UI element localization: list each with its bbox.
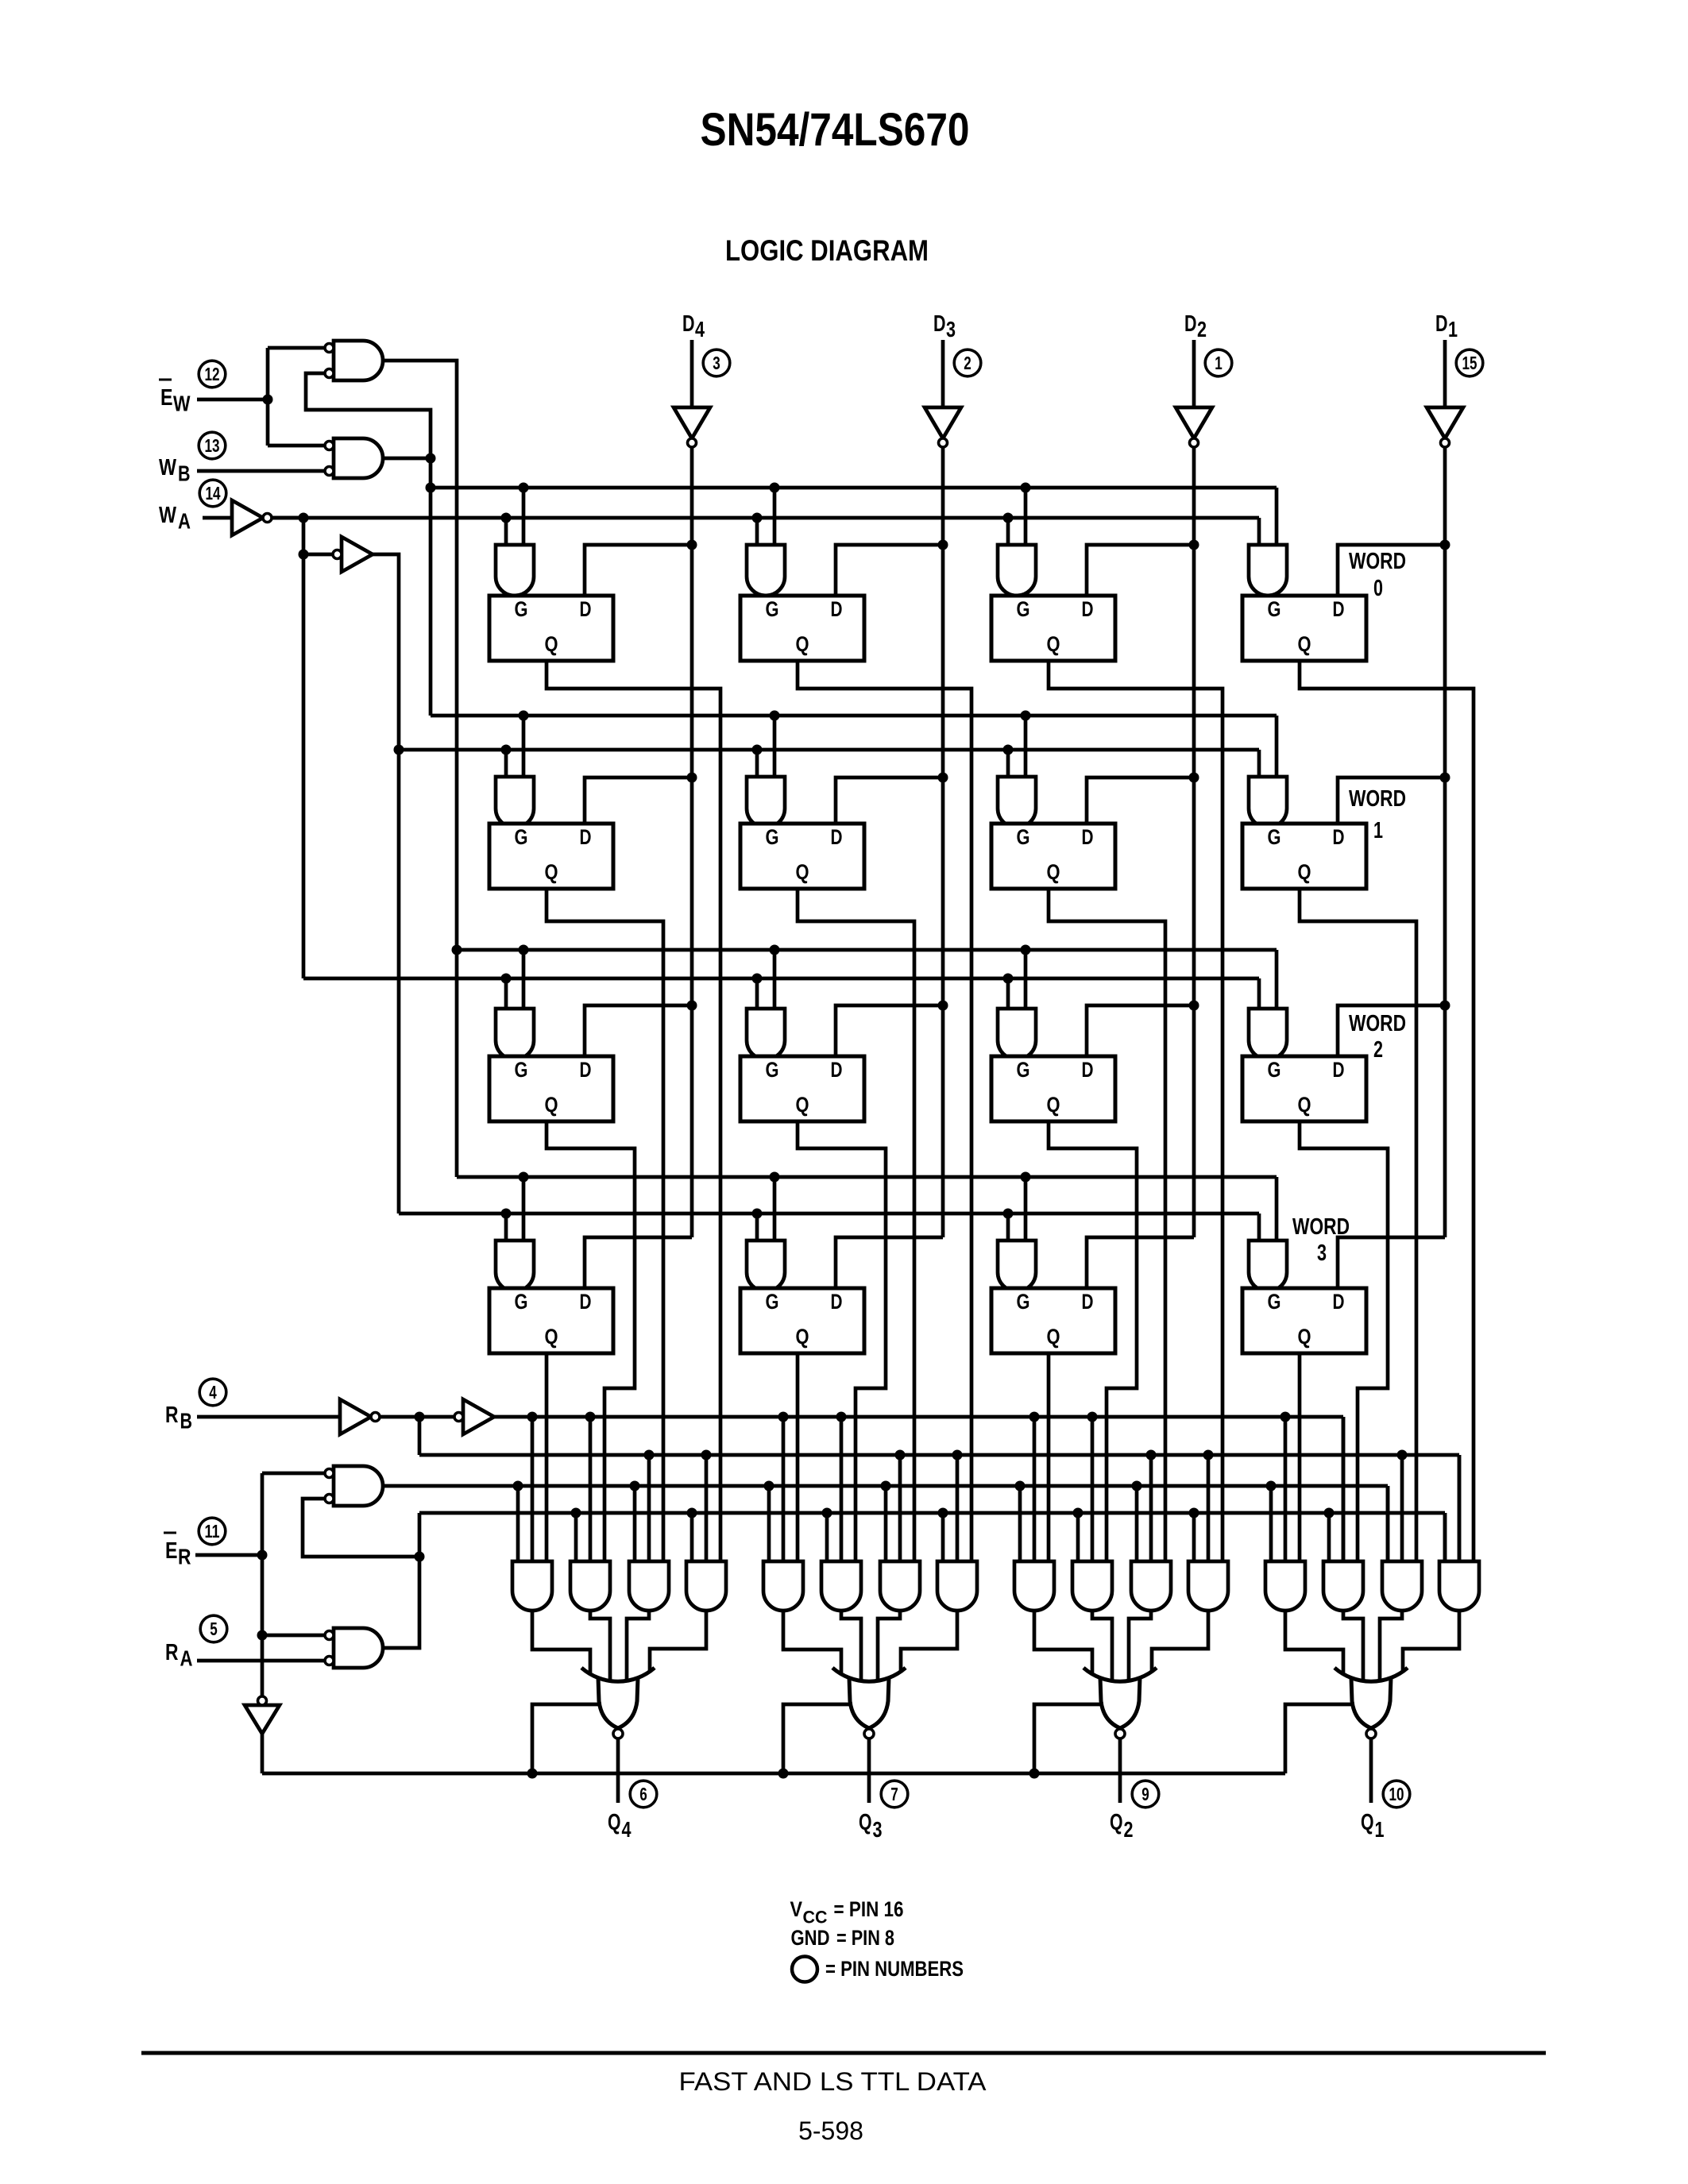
svg-text:Q: Q	[545, 632, 558, 656]
svg-text:G: G	[766, 1058, 779, 1082]
wire read gate input stub D1	[1327, 1513, 1331, 1561]
junction D1 tap word 2	[1440, 1001, 1450, 1011]
wire U4 output vertical (WA true) to word1/word3 A buses	[373, 554, 399, 1214]
AND gate read word2 -- read AND 2 bit D3	[821, 1561, 861, 1611]
wire Q2 output to pin	[1118, 1738, 1122, 1803]
junction bus tap	[519, 945, 529, 955]
wire selA=1 stub last	[1386, 1486, 1390, 1561]
junction D3 tap word 0	[938, 540, 948, 550]
wire read gate input stub D2	[1207, 1455, 1211, 1561]
junction bus tap	[836, 1412, 847, 1422]
AND gate read word2 -- read AND 2 bit D2	[1072, 1561, 1112, 1611]
wire U2 output feedback to U1 input 2	[306, 373, 431, 453]
junction bus tap	[527, 1769, 538, 1779]
AND gate word1 write gate bit D4	[496, 777, 534, 828]
svg-text:15: 15	[1462, 353, 1477, 373]
svg-text:B: B	[178, 461, 191, 486]
inverter U3 (WA invert)	[232, 500, 263, 535]
wire D2 tap to word2 latch D input	[1087, 1005, 1194, 1056]
wire U2 output vertical (selects words 0,1)	[383, 458, 431, 716]
wire D3 tap to word3 latch D input	[836, 1237, 943, 1288]
junction EW split	[263, 395, 273, 405]
wire WA-bar vertical to word2 A bus	[302, 518, 306, 978]
svg-text:Q: Q	[1047, 632, 1060, 656]
wire read gate input stub D2	[1192, 1513, 1196, 1561]
pin 9 circle (Q2)	[1132, 1781, 1159, 1808]
wire read AND4 D1 to NOR	[1403, 1611, 1459, 1673]
wire D3 data line vertical	[941, 447, 945, 1237]
svg-text:Q: Q	[608, 1810, 621, 1835]
wire D4 tap to word2 latch D input	[585, 1005, 692, 1056]
junction bus tap	[770, 1172, 780, 1183]
wire D4 tap to word0 latch D input	[585, 545, 692, 596]
svg-text:12: 12	[205, 364, 220, 384]
wire U1 output vertical (selects words 2,3)	[383, 361, 457, 1177]
junction bus tap	[1003, 513, 1014, 523]
latch word 2 bit D2 (G/D/Q)	[991, 1056, 1115, 1121]
wire WB input to gate U2 input 2	[197, 469, 325, 473]
wire read gate input stub D4	[589, 1417, 593, 1561]
wire ER to gate U7 input 1	[262, 1472, 325, 1476]
svg-text:SN54/74LS670: SN54/74LS670	[701, 104, 970, 156]
svg-text:2: 2	[1197, 317, 1207, 341]
AND gate word0 write gate bit D4	[496, 545, 534, 596]
svg-text:Q: Q	[1298, 1325, 1311, 1349]
svg-text:G: G	[515, 1290, 528, 1314]
gate U7 (AND with inverted inputs, read decode A=1)	[334, 1466, 383, 1506]
inverter U5 (RB invert)	[340, 1399, 371, 1434]
AND gate read word1 -- read AND 3 bit D3	[880, 1561, 920, 1611]
wire word1 D3 gate B input stub	[773, 716, 777, 777]
wire word2 D2 gate A input stub	[1006, 978, 1010, 1009]
wire read gate input stub D4	[705, 1455, 709, 1561]
junction bus tap	[1132, 1481, 1142, 1491]
wire D4 data line vertical	[690, 447, 694, 1237]
svg-text:D: D	[580, 1058, 592, 1082]
svg-text:Q: Q	[796, 1093, 809, 1117]
wire word3 D3 latch Q to read gate	[796, 1353, 800, 1561]
junction bus tap	[1029, 1769, 1040, 1779]
wire word1 D2 gate A input stub	[1006, 750, 1010, 777]
svg-text:Q: Q	[545, 1325, 558, 1349]
svg-text:1: 1	[1448, 317, 1458, 341]
junction bus tap	[519, 711, 529, 721]
junction bus tap	[1021, 945, 1031, 955]
wire D2 tap to word0 latch D input	[1087, 545, 1194, 596]
svg-text:D: D	[1082, 1290, 1094, 1314]
svg-text:R: R	[165, 1640, 179, 1665]
wire EW to gate U1 input 1	[268, 346, 325, 350]
junction D1 tap word 0	[1440, 540, 1450, 550]
wire word0 D3 gate B input stub	[773, 488, 777, 545]
wire D3 tap to word2 latch D input	[836, 1005, 943, 1056]
wire D1 data line vertical	[1443, 447, 1447, 1237]
wire word3 B stub col D1	[1275, 1177, 1279, 1241]
wire D1 to inverter	[1443, 340, 1447, 407]
wire word0 D4 gate A input stub	[504, 518, 508, 545]
wire enable riser into NOR D2	[1034, 1704, 1103, 1773]
wire word0 D2 gate A input stub	[1006, 518, 1010, 545]
svg-text:Q: Q	[1298, 1093, 1311, 1117]
svg-text:E: E	[160, 385, 173, 411]
buffer U4 (WA re-invert, bubble on input)	[342, 537, 373, 572]
svg-text:11: 11	[205, 1521, 220, 1542]
wire D2 data line vertical	[1192, 447, 1196, 1237]
wire read AND1 D3 to NOR	[783, 1611, 841, 1673]
latch word 3 bit D2 (G/D/Q)	[991, 1288, 1115, 1353]
svg-text:Q: Q	[1047, 1093, 1060, 1117]
wire word1 D4 latch Q route to read gate	[547, 889, 663, 1561]
svg-text:D: D	[1435, 311, 1448, 337]
wire word2 D4 latch Q route to read gate	[547, 1121, 635, 1561]
svg-text:A: A	[178, 509, 191, 534]
wire read AND1 D1 to NOR	[1285, 1611, 1343, 1673]
svg-text:GND: GND	[791, 1926, 830, 1950]
junction D2 tap word 2	[1189, 1001, 1199, 1011]
junction bus tap	[1003, 1209, 1014, 1219]
bus read A-select bar (ER*RA-bar)	[419, 1511, 1445, 1515]
svg-text:A: A	[180, 1646, 193, 1671]
svg-text:D: D	[831, 1058, 843, 1082]
wire RB-bar stub last	[1458, 1455, 1462, 1561]
latch word 1 bit D2 (G/D/Q)	[991, 824, 1115, 889]
svg-text:D: D	[1333, 825, 1345, 849]
svg-text:Q: Q	[1047, 1325, 1060, 1349]
bus word1 write A-select (WA)	[399, 748, 1259, 752]
wire D1 tap to word0 latch D input	[1338, 545, 1445, 596]
latch word 3 bit D3 (G/D/Q)	[740, 1288, 864, 1353]
wire word1 D2 gate B input stub	[1024, 716, 1028, 777]
wire read AND2 D2 to NOR	[1092, 1611, 1112, 1682]
wire read AND3 D1 to NOR	[1380, 1611, 1402, 1681]
NOR gate output Q2 (5-input OR with inverting output)	[1100, 1677, 1140, 1728]
wire read gate input stub D2	[1135, 1486, 1139, 1561]
wire read gate input stub D2	[1149, 1455, 1153, 1561]
wire D4 to inverter	[690, 340, 694, 407]
AND gate read word2 -- read AND 2 bit D1	[1323, 1561, 1363, 1611]
svg-text:WORD: WORD	[1292, 1214, 1350, 1240]
wire read gate input stub D1	[1284, 1417, 1288, 1561]
wire word3 D3 gate A input stub	[755, 1214, 759, 1241]
wire read gate input stub D3	[825, 1513, 829, 1561]
wire EW input	[197, 398, 268, 402]
svg-text:1: 1	[1215, 353, 1223, 373]
wire word1 B stub col D1	[1275, 716, 1279, 777]
svg-text:Q: Q	[545, 860, 558, 884]
pin 4 circle (RB)	[199, 1379, 226, 1406]
svg-text:G: G	[1268, 1058, 1281, 1082]
junction ER to U8 tap	[257, 1630, 268, 1641]
inverter on D4 input	[674, 407, 710, 438]
AND gate read word0 -- read AND 4 bit D4	[686, 1561, 726, 1611]
wire word0 D3 latch Q route to read gate	[798, 661, 971, 1561]
svg-text:CC: CC	[803, 1908, 828, 1927]
wire selA=0 stub last	[1443, 1513, 1447, 1561]
wire word3 D4 latch Q to read gate	[545, 1353, 549, 1561]
wire RB-bar down to bus	[418, 1417, 422, 1455]
wire read gate input stub D3	[898, 1455, 902, 1561]
svg-text:1: 1	[1373, 818, 1383, 843]
pin 3 circle (D4)	[703, 349, 730, 376]
buffer U6 (RB re-invert, bubble on input)	[463, 1399, 494, 1434]
junction bus tap	[1003, 974, 1014, 984]
pin 12 circle (EW)	[199, 361, 226, 388]
svg-text:= PIN NUMBERS: = PIN NUMBERS	[825, 1957, 964, 1981]
junction bus tap	[770, 711, 780, 721]
wire word2 B stub col D1	[1275, 950, 1279, 1009]
svg-text:Q: Q	[1298, 632, 1311, 656]
junction bus tap	[585, 1412, 596, 1422]
svg-text:Q: Q	[1361, 1810, 1374, 1835]
NOR gate output Q4 (5-input OR with inverting output)	[598, 1677, 638, 1728]
junction bus tap	[519, 483, 529, 493]
wire word0 A stub col D1	[1257, 518, 1261, 545]
bus word3 write A-select (WA)	[399, 1212, 1259, 1216]
wire D4 tap to word3 latch D input	[585, 1237, 692, 1288]
bus word2 write A-select (WA-bar)	[303, 977, 1259, 981]
junction D4 tap word 0	[687, 540, 697, 550]
latch word 2 bit D3 (G/D/Q)	[740, 1056, 864, 1121]
wire word3 D2 gate A input stub	[1006, 1214, 1010, 1241]
latch word 1 bit D4 (G/D/Q)	[489, 824, 613, 889]
svg-text:G: G	[1268, 825, 1281, 849]
NOR gate output Q1 (5-input OR with inverting output)	[1351, 1677, 1391, 1728]
junction word0 B bus tee	[426, 483, 436, 493]
wire word1 D4 gate B input stub	[522, 716, 526, 777]
wire read gate input stub D3	[767, 1486, 771, 1561]
svg-text:D: D	[1184, 311, 1197, 337]
junction D2 tap word 0	[1189, 540, 1199, 550]
wire word3 D3 gate B input stub	[773, 1177, 777, 1241]
wire enable riser col D1	[1285, 1704, 1354, 1773]
wire read gate input stub D1	[1400, 1455, 1404, 1561]
wire ER to gate U8 input 1	[262, 1634, 325, 1638]
bus word3 write B-select	[457, 1175, 1277, 1179]
AND gate word3 write gate bit D3	[747, 1241, 785, 1291]
wire word2 D4 gate B input stub	[522, 950, 526, 1009]
AND gate read word1 -- read AND 3 bit D2	[1131, 1561, 1171, 1611]
junction D1 tap word 1	[1440, 773, 1450, 783]
wire read gate input stub D1	[1458, 1455, 1462, 1561]
svg-text:W: W	[173, 392, 191, 416]
wire read gate input stub D4	[516, 1486, 520, 1561]
wire Q3 output to pin	[867, 1738, 871, 1803]
junction bus tap	[778, 1412, 789, 1422]
svg-text:W: W	[159, 455, 177, 480]
svg-text:5-598: 5-598	[798, 2116, 863, 2145]
wire U5 output to U6	[380, 1415, 454, 1419]
junction bus tap	[1203, 1450, 1214, 1461]
wire read gate input stub D1	[1386, 1486, 1390, 1561]
junction bus tap	[770, 945, 780, 955]
wire word3 D2 gate B input stub	[1024, 1177, 1028, 1241]
wire read gate input stub D4	[531, 1417, 535, 1561]
pin 6 circle (Q4)	[630, 1781, 657, 1808]
junction bus tap	[1003, 745, 1014, 755]
junction D2 tap word 1	[1189, 773, 1199, 783]
junction WA-bar split	[299, 513, 309, 523]
junction bus tap	[1029, 1412, 1040, 1422]
svg-text:G: G	[766, 1290, 779, 1314]
bus read B-select true (RB)	[494, 1415, 1343, 1419]
junction bus tap	[1266, 1481, 1277, 1491]
junction D4 tap word 1	[687, 773, 697, 783]
svg-text:Q: Q	[545, 1093, 558, 1117]
wire word2 D3 latch Q route to read gate	[798, 1121, 886, 1561]
wire word1 D4 gate A input stub	[504, 750, 508, 777]
inverter U9 (read enable, bubble on input)	[245, 1705, 280, 1734]
wire read AND4 D4 to NOR	[650, 1611, 706, 1673]
wire read gate input stub D3	[840, 1417, 844, 1561]
wire read AND2 D3 to NOR	[841, 1611, 861, 1682]
svg-text:FAST AND LS TTL DATA: FAST AND LS TTL DATA	[679, 2067, 987, 2096]
junction D3 tap word 2	[938, 1001, 948, 1011]
AND gate word3 write gate bit D1	[1249, 1241, 1287, 1291]
bus word0 write B-select	[431, 486, 1277, 490]
latch word 2 bit D4 (G/D/Q)	[489, 1056, 613, 1121]
wire Q1 output to pin	[1369, 1738, 1373, 1803]
junction bus tap	[571, 1508, 581, 1518]
gate U2 (AND with inverted inputs, write decode B=0)	[334, 438, 383, 478]
junction D3 tap word 1	[938, 773, 948, 783]
svg-text:Q: Q	[1047, 860, 1060, 884]
bus read enable (ER-bar)	[262, 1772, 1285, 1776]
junction bus tap	[1324, 1508, 1335, 1518]
inverter on D1 input	[1427, 407, 1463, 438]
svg-text:D: D	[831, 1290, 843, 1314]
wire RA input to gate U8 input 2	[197, 1659, 325, 1663]
wire EW to gate U2 input 1	[268, 444, 325, 448]
wire read AND1 D2 to NOR	[1034, 1611, 1092, 1673]
wire word3 D1 latch Q to read gate	[1298, 1353, 1302, 1561]
junction bus tap	[752, 745, 763, 755]
wire word3 A stub col D1	[1257, 1214, 1261, 1241]
wire enable riser into NOR D4	[532, 1704, 601, 1773]
latch word 0 bit D2 (G/D/Q)	[991, 596, 1115, 661]
wire read AND1 D4 to NOR	[532, 1611, 590, 1673]
junction bus tap	[501, 513, 512, 523]
junction bus tap	[1397, 1450, 1408, 1461]
junction bus tap	[644, 1450, 655, 1461]
junction bus tap	[513, 1481, 523, 1491]
wire word0 D4 latch Q route to read gate	[547, 661, 720, 1561]
pin 2 circle (D3)	[954, 349, 981, 376]
svg-text:Q: Q	[859, 1810, 872, 1835]
wire Q4 output to pin	[616, 1738, 620, 1803]
svg-text:D: D	[580, 1290, 592, 1314]
junction bus tap	[1189, 1508, 1199, 1518]
junction bus tap	[952, 1450, 963, 1461]
svg-text:5: 5	[210, 1619, 218, 1639]
wire ER input	[195, 1553, 262, 1557]
AND gate read word1 -- read AND 3 bit D1	[1382, 1561, 1422, 1611]
svg-text:R: R	[165, 1403, 179, 1428]
junction bus tap	[752, 513, 763, 523]
wire word2 D4 gate A input stub	[504, 978, 508, 1009]
junction bus tap	[764, 1481, 774, 1491]
latch word 0 bit D4 (G/D/Q)	[489, 596, 613, 661]
svg-text:2: 2	[1124, 1817, 1134, 1842]
legend pin-number circle symbol	[792, 1957, 817, 1982]
wire word3 D4 gate B input stub	[522, 1177, 526, 1241]
wire word2 D2 latch Q route to read gate	[1049, 1121, 1137, 1561]
svg-text:= PIN 16: = PIN 16	[834, 1897, 904, 1921]
svg-text:LOGIC DIAGRAM: LOGIC DIAGRAM	[725, 234, 929, 267]
wire read gate input stub D4	[574, 1513, 578, 1561]
inverter on D2 input	[1176, 407, 1212, 438]
AND gate read word2 -- read AND 2 bit D4	[570, 1561, 610, 1611]
bus read B-select bar (RB-bar)	[419, 1453, 1459, 1457]
latch word 1 bit D3 (G/D/Q)	[740, 824, 864, 889]
svg-text:2: 2	[1373, 1037, 1383, 1063]
wire U3 output	[272, 516, 303, 520]
latch word 0 bit D1 (G/D/Q)	[1242, 596, 1366, 661]
wire read gate input stub D1	[1269, 1486, 1273, 1561]
junction bus tap	[1021, 483, 1031, 493]
pin 1 circle (D2)	[1205, 349, 1232, 376]
AND gate word1 write gate bit D3	[747, 777, 785, 828]
wire D2 to inverter	[1192, 340, 1196, 407]
junction bus tap	[822, 1508, 832, 1518]
svg-text:D: D	[1082, 825, 1094, 849]
wire word1 D2 latch Q route to read gate	[1049, 889, 1165, 1561]
svg-text:2: 2	[964, 353, 971, 373]
svg-text:Q: Q	[1110, 1810, 1123, 1835]
wire RB input	[197, 1415, 340, 1419]
svg-text:D: D	[1082, 597, 1094, 621]
svg-text:0: 0	[1373, 576, 1383, 601]
junction bus tap	[501, 745, 512, 755]
wire D4 tap to word1 latch D input	[585, 778, 692, 824]
svg-text:Q: Q	[796, 632, 809, 656]
junction bus tap	[778, 1769, 789, 1779]
wire word1 D3 latch Q route to read gate	[798, 889, 914, 1561]
junction bus tap	[687, 1508, 697, 1518]
svg-text:G: G	[1268, 1290, 1281, 1314]
pin 11 circle (ER)	[199, 1518, 226, 1545]
AND gate read word0 -- read AND 4 bit D1	[1439, 1561, 1479, 1611]
bus read A-select true (ER*RA)	[382, 1484, 1388, 1488]
junction bus tap	[1146, 1450, 1157, 1461]
NOR gate output Q3 (5-input OR with inverting output)	[849, 1677, 889, 1728]
wire read AND3 D2 to NOR	[1129, 1611, 1151, 1681]
svg-text:3: 3	[1317, 1241, 1327, 1266]
svg-text:10: 10	[1389, 1784, 1404, 1804]
wire read AND3 D4 to NOR	[627, 1611, 649, 1681]
wire D1 tap to word3 latch D input	[1338, 1237, 1445, 1288]
svg-text:D: D	[933, 311, 946, 337]
wire read gate input stub D2	[1018, 1486, 1022, 1561]
junction bus tap	[1087, 1412, 1098, 1422]
wire read gate input stub D4	[647, 1455, 651, 1561]
svg-text:= PIN 8: = PIN 8	[836, 1926, 894, 1950]
junction bus tap	[527, 1412, 538, 1422]
svg-text:13: 13	[205, 435, 220, 456]
AND gate read word3 -- read AND 1 bit D4	[512, 1561, 552, 1611]
junction ER split	[257, 1550, 268, 1561]
wire word2 A stub col D1	[1257, 978, 1261, 1009]
AND gate word1 write gate bit D2	[998, 777, 1036, 828]
svg-text:G: G	[1017, 597, 1030, 621]
svg-text:4: 4	[622, 1817, 632, 1842]
junction RB-bar split	[415, 1412, 425, 1422]
AND gate word3 write gate bit D2	[998, 1241, 1036, 1291]
bus word1 write B-select	[431, 714, 1277, 718]
wire D1 tap to word2 latch D input	[1338, 1005, 1445, 1056]
junction bus tap	[519, 1172, 529, 1183]
bus word0 write A-select (WA-bar)	[272, 516, 1259, 520]
wire word1 D1 latch Q route to read gate	[1300, 889, 1416, 1561]
